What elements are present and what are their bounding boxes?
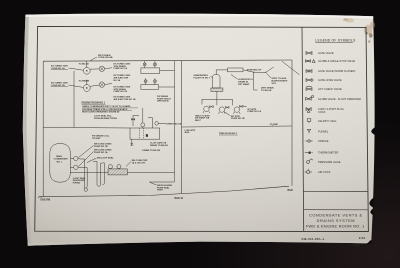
svg-text:348–013–252—1: 348–013–252—1 bbox=[301, 237, 325, 241]
label engine room no 1 bbox=[82, 101, 106, 104]
tank inlet elbow bbox=[133, 116, 139, 127]
svg-text:BKLT: BKLT bbox=[195, 120, 201, 122]
tank inlet valve bbox=[131, 118, 134, 121]
stains top-right bbox=[343, 18, 375, 43]
leader to pump 1A bbox=[69, 68, 84, 70]
legend row funnel bbox=[307, 129, 329, 133]
generating plant tank bbox=[211, 75, 223, 92]
svg-text:PLANT TK NO 1: PLANT TK NO 1 bbox=[194, 76, 211, 79]
legend row globe valve float operated bbox=[306, 95, 361, 101]
label loop seal fill bbox=[94, 114, 117, 119]
fire room right boundary bbox=[291, 60, 293, 186]
legend row orifice bbox=[305, 139, 328, 143]
svg-text:PUMP NO 1A: PUMP NO 1A bbox=[248, 110, 262, 113]
fire room lower boundary pipe bbox=[182, 126, 292, 127]
svg-text:PUMP NO 1B: PUMP NO 1B bbox=[94, 146, 108, 148]
label main cond lines pump 1B bbox=[94, 144, 112, 148]
svg-text:HIGH CONN OPERATING SHORE AT: HIGH CONN OPERATING SHORE AT bbox=[82, 111, 120, 114]
title block text bbox=[306, 213, 365, 229]
riser from coolers bbox=[174, 61, 176, 173]
gland exhaust condenser pump 1B bbox=[83, 80, 99, 92]
svg-text:TO BILGE: TO BILGE bbox=[79, 63, 90, 65]
svg-text:BHD: BHD bbox=[288, 189, 293, 192]
machinery space top boundary line bbox=[43, 60, 292, 61]
leader to pump 1B bbox=[69, 85, 84, 87]
condenser outlet valve upper bbox=[70, 156, 80, 160]
legend row 3-way 2-port plug cock bbox=[306, 107, 344, 114]
bulkhead between engine room and fire room bbox=[181, 61, 183, 194]
legend title bbox=[315, 39, 356, 43]
svg-text:DRAIN TO BILGE: DRAIN TO BILGE bbox=[150, 144, 168, 147]
legend row globe & angle stop valve bbox=[305, 59, 355, 63]
svg-text:ORIFICE: ORIFICE bbox=[318, 139, 329, 143]
label wet drain cond via GB bbox=[98, 54, 113, 59]
dark notches right edge bbox=[371, 127, 376, 136]
feed pump 1C bbox=[202, 99, 213, 113]
paper left edge shading bbox=[23, 15, 32, 246]
svg-text:THERMOMETER: THERMOMETER bbox=[318, 151, 338, 155]
loop seal U piping left bbox=[81, 159, 88, 191]
svg-text:COND VIA GB: COND VIA GB bbox=[98, 56, 113, 59]
engine room left boundary bbox=[42, 61, 44, 196]
title block box lines bbox=[303, 191, 368, 210]
tank vent pipe bbox=[148, 118, 152, 128]
label stby to alm bldn evap bbox=[272, 77, 288, 85]
label main cond pmp bbox=[132, 160, 148, 164]
label cl at gate bbox=[150, 142, 168, 147]
svg-text:GATE VALVE (NORM CLOSED): GATE VALVE (NORM CLOSED) bbox=[318, 69, 355, 73]
condensate suction pipe bbox=[70, 172, 108, 174]
dirt drain drop pipe bbox=[254, 72, 258, 90]
valve A bbox=[99, 66, 112, 71]
svg-text:TO DMP: TO DMP bbox=[270, 124, 279, 126]
svg-text:STARTING UP: STARTING UP bbox=[247, 68, 262, 71]
paper bottom edge shading bbox=[28, 239, 372, 246]
tank outlet header bbox=[202, 91, 233, 99]
svg-text:DRN BLDN: DRN BLDN bbox=[157, 101, 169, 103]
svg-text:PUMP NO 1B: PUMP NO 1B bbox=[114, 91, 128, 93]
label turbo gen air ejector 1A bbox=[114, 75, 131, 82]
paper sheet bbox=[23, 14, 375, 246]
label FW drain pump blowdown bbox=[157, 95, 171, 103]
svg-text:PUMP NO 1B: PUMP NO 1B bbox=[231, 118, 245, 120]
svg-text:PRESSURE GAGE: PRESSURE GAGE bbox=[318, 160, 341, 164]
legend row gate valve bbox=[306, 51, 334, 55]
label dirt drain to bilge bbox=[261, 87, 274, 92]
svg-text:GATE VALVE: GATE VALVE bbox=[318, 51, 334, 55]
note operating instructions bbox=[82, 105, 131, 113]
svg-text:FUNNEL: FUNNEL bbox=[318, 130, 329, 134]
leaders condenser labels bbox=[79, 146, 97, 167]
svg-text:2-24: 2-24 bbox=[359, 236, 365, 240]
main condenser no 1 shell bbox=[50, 144, 71, 183]
svg-text:GLOBE & ANGLE STOP VALVE: GLOBE & ANGLE STOP VALVE bbox=[318, 59, 355, 63]
svg-text:SALINITY CELL: SALINITY CELL bbox=[318, 119, 337, 123]
label EG turbo gen cond no 1A bbox=[51, 66, 68, 70]
deck line bbox=[39, 186, 289, 197]
feed pump 1B bbox=[217, 99, 229, 113]
svg-text:GLOBE VALVE - FLOAT OPERATED: GLOBE VALVE - FLOAT OPERATED bbox=[318, 97, 361, 101]
legend row gate valve normally closed bbox=[306, 69, 355, 73]
label main cond lines pump 1A bbox=[94, 150, 112, 154]
label mt wtr pump 1A bbox=[248, 109, 262, 113]
tank level gauge bbox=[141, 108, 145, 128]
label main flushing pump seal vent bbox=[157, 185, 172, 192]
svg-text:TO DRAIN: TO DRAIN bbox=[79, 79, 90, 82]
drain valve to bilge bbox=[155, 122, 166, 126]
svg-text:CONDENSATE VENTS &: CONDENSATE VENTS & bbox=[309, 213, 362, 218]
legend row gate hose valve bbox=[306, 78, 342, 82]
svg-text:ENGINE ROOM NO 1: ENGINE ROOM NO 1 bbox=[82, 101, 106, 104]
svg-text:NO 1: NO 1 bbox=[57, 162, 63, 164]
paper top edge bright line bbox=[25, 14, 373, 19]
svg-text:COCK: COCK bbox=[318, 110, 326, 114]
svg-text:PUMP NO 1A: PUMP NO 1A bbox=[94, 151, 108, 154]
svg-text:FROM BLWDN PIPING: FROM BLWDN PIPING bbox=[94, 118, 117, 120]
label turbo gen steam drain 1A bbox=[114, 63, 131, 70]
svg-text:DRAINS SYSTEM: DRAINS SYSTEM bbox=[317, 218, 355, 223]
legend row salinity cell bbox=[307, 119, 337, 123]
svg-text:PUMP NO 1A: PUMP NO 1A bbox=[114, 67, 128, 70]
label turbo gen pump 1B bbox=[114, 86, 131, 93]
air ejector cooler 1A bbox=[141, 61, 175, 74]
svg-text:ALM: ALM bbox=[185, 131, 190, 134]
legend row pressure gage bbox=[307, 159, 341, 164]
svg-text:AIR EJECTOR NO 1B: AIR EJECTOR NO 1B bbox=[114, 98, 136, 101]
svg-text:1A & 1B CTR: 1A & 1B CTR bbox=[132, 161, 146, 164]
deck tick left bbox=[39, 197, 41, 199]
legend row thermometer bbox=[305, 151, 339, 155]
drain manifold drop pipe bbox=[73, 71, 75, 127]
air ejector cooler 1B bbox=[141, 78, 175, 89]
FW drain collecting tank bbox=[130, 128, 160, 139]
feed pump 1A bbox=[233, 99, 247, 113]
label FW drain coll tk inst bbox=[92, 134, 110, 139]
label generating plant tank bbox=[194, 74, 211, 79]
svg-text:CONDENSER: CONDENSER bbox=[54, 159, 68, 161]
svg-text:MAIN: MAIN bbox=[56, 155, 62, 158]
condensate discharge main L pipe bbox=[127, 173, 174, 183]
leader wet drain bbox=[90, 57, 97, 61]
condensate header pipe bbox=[43, 126, 130, 129]
label mt wtr pump 1B bbox=[231, 116, 245, 120]
gland exhaust condenser pump 1A bbox=[83, 61, 99, 74]
diagonal exit pipe bbox=[266, 61, 300, 75]
loop seal U piping right bbox=[93, 162, 104, 187]
legend divider bbox=[302, 27, 304, 231]
vent condenser box bbox=[216, 68, 266, 75]
svg-text:TO BILGE: TO BILGE bbox=[261, 90, 272, 92]
svg-text:TK INST: TK INST bbox=[92, 138, 101, 140]
svg-text:PIPING: PIPING bbox=[73, 183, 81, 185]
svg-text:DRAIN TO BILGE: DRAIN TO BILGE bbox=[142, 149, 160, 152]
legend row air cock bbox=[305, 169, 331, 174]
svg-text:EXT MANF: EXT MANF bbox=[238, 83, 250, 86]
svg-text:SYS: SYS bbox=[272, 83, 277, 85]
main condensate pump unit bbox=[108, 165, 127, 175]
frame border bbox=[35, 26, 369, 231]
label fire room no 1 bbox=[219, 133, 238, 135]
label low wtr alm bbox=[185, 130, 196, 134]
svg-text:ENG RM: ENG RM bbox=[41, 198, 51, 201]
legend row lift check valve bbox=[306, 86, 342, 91]
svg-text:MN LOOP SEAL: MN LOOP SEAL bbox=[97, 157, 114, 160]
svg-text:LIFT CHECK VALVE: LIFT CHECK VALVE bbox=[318, 87, 342, 91]
valve B bbox=[99, 82, 112, 87]
svg-text:VENT: VENT bbox=[157, 190, 163, 192]
svg-text:FWD & ENGINE ROOM NO. 1: FWD & ENGINE ROOM NO. 1 bbox=[306, 223, 365, 228]
svg-text:LEGEND OF SYMBOLS: LEGEND OF SYMBOLS bbox=[315, 39, 356, 43]
svg-text:NO 1A: NO 1A bbox=[114, 79, 121, 82]
funnel drain to bilge bbox=[130, 139, 133, 146]
svg-text:GATE HOSE VALVE: GATE HOSE VALVE bbox=[318, 78, 342, 82]
condenser outlet valve lower bbox=[70, 165, 80, 169]
label turbo gen air ejector 1B bbox=[114, 97, 136, 101]
label loop seal drain bldn piping bbox=[73, 177, 86, 185]
svg-text:BHD 42: BHD 42 bbox=[175, 197, 184, 200]
label EG turbo gen cond no 1B bbox=[51, 83, 68, 87]
svg-text:AIR COCK: AIR COCK bbox=[318, 170, 331, 174]
label to service bbox=[238, 78, 254, 86]
svg-text:TO BILGE: TO BILGE bbox=[171, 124, 182, 126]
label heat to atm drain bbox=[195, 114, 210, 122]
